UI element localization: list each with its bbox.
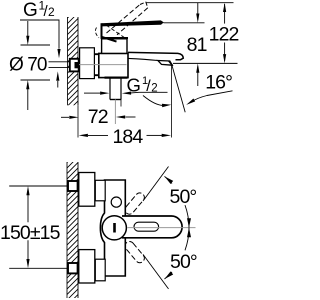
dimension 81: [187, 3, 207, 86]
curved leader to spout outlet: [143, 96, 166, 106]
wall hatch (plan view): [59, 143, 81, 300]
tube right edge extension: [120, 100, 122, 107]
G1/2 leader underline: [20, 20, 59, 49]
svg-text:122: 122: [209, 24, 239, 46]
lever inner slot (plan): [134, 222, 159, 231]
pivot center tick: [113, 223, 116, 233]
svg-text:16°: 16°: [205, 72, 232, 94]
label G 1/2 (top left): [20, 0, 61, 88]
svg-text:72: 72: [88, 106, 108, 128]
svg-text:150±15: 150±15: [0, 222, 61, 244]
tube centerline (gray): [114, 100, 116, 125]
tube bottom cap: [110, 99, 121, 101]
left arrow to tube: [84, 92, 100, 94]
lever dashed at +50deg (plan): [123, 191, 146, 216]
lever outer (plan): [122, 216, 182, 238]
svg-text:81: 81: [187, 34, 207, 56]
shower outlet tube below body: [110, 78, 121, 100]
50deg extension line upper: [143, 167, 169, 202]
extension line top (raised lever height): [146, 2, 234, 4]
dimension 150 +/- 15: [0, 186, 68, 268]
svg-text:G: G: [23, 0, 38, 21]
G1/2 fitting bottom arrow: [57, 81, 59, 88]
spout underside: [128, 58, 158, 60]
dimension 122: [209, 3, 239, 64]
wall surface line (plan view): [77, 162, 79, 298]
spout outlet vertical extension line: [171, 65, 173, 137]
svg-text:50°: 50°: [170, 251, 197, 273]
aerator tip: [169, 61, 173, 65]
wall surface line (side view): [77, 17, 79, 105]
svg-text:184: 184: [112, 126, 143, 148]
body (plan view): [100, 180, 125, 276]
body bottom thick edge: [105, 76, 128, 78]
lever raised dashed lower edge: [117, 8, 148, 35]
aerator: [158, 61, 173, 66]
wall fitting G1/2 (side view): [70, 59, 79, 72]
diverter circle (plan): [111, 197, 121, 207]
supply pipe leader lines: [49, 62, 71, 68]
lever raised dashed tip: [140, 2, 148, 8]
50deg arc lower: [185, 228, 189, 251]
wall surface extension line down to dimension 184: [77, 105, 79, 137]
dimension 184: [79, 126, 171, 148]
extension line lever top: [164, 22, 205, 24]
water stream line (16 deg): [172, 66, 185, 113]
dimension diameter 70: [9, 21, 50, 110]
lever pivot circle (plan): [102, 216, 126, 240]
label G 1/2 (shower outlet): [84, 74, 171, 107]
right arrow to tube with leader to text underline: [131, 91, 168, 94]
lower s-union nut (plan): [95, 259, 105, 281]
escutcheon (side view): [80, 48, 95, 79]
body main block (side view): [99, 53, 128, 77]
upper escutcheon (plan): [79, 173, 95, 207]
lower wall nut (plan): [68, 263, 78, 273]
dimension 72: [61, 106, 136, 128]
fitting inner pipe end: [75, 62, 79, 68]
50deg extension line lower: [143, 254, 169, 289]
lever dashed at -50deg (plan): [123, 240, 146, 265]
lever raised dashed back edge: [106, 25, 126, 38]
dimension 16 deg: [186, 72, 232, 105]
lever centerline gray (plan): [128, 227, 196, 229]
lever raised dashed upper edge: [107, 5, 141, 34]
cartridge section (side view): [102, 39, 127, 54]
svg-text:50°: 50°: [170, 186, 197, 208]
upper wall nut (plan): [68, 181, 78, 191]
50deg arc upper: [185, 205, 189, 228]
wall hatch (side view): [60, 0, 82, 130]
inlet centerline (gray): [79, 64, 127, 66]
svg-text:Ø 70: Ø 70: [9, 55, 47, 76]
lower escutcheon (plan): [79, 250, 95, 283]
lever root block: [102, 23, 117, 41]
svg-text:2: 2: [48, 5, 55, 19]
spout (side view): [128, 52, 183, 59]
s-union nut (side view): [94, 54, 98, 75]
lever bottom line (thick): [101, 37, 128, 39]
lever solid (side view): [102, 20, 164, 26]
spout outlet horizontal reference line: [173, 62, 238, 64]
lever back tip swing dashed arc: [95, 28, 99, 38]
upper s-union nut (plan): [95, 180, 105, 201]
